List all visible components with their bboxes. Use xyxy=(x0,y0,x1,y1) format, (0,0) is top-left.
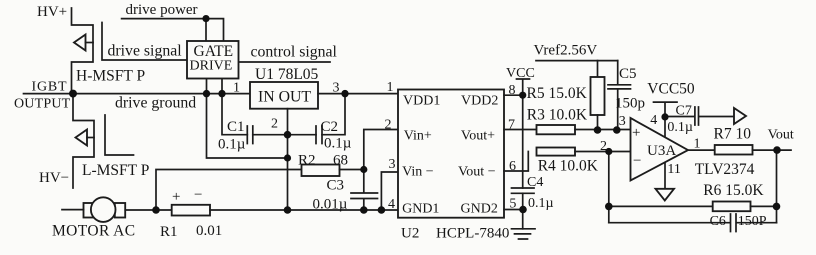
svg-text:68: 68 xyxy=(333,153,348,169)
svg-text:R7 10: R7 10 xyxy=(714,126,752,143)
svg-text:TLV2374: TLV2374 xyxy=(695,161,755,178)
svg-text:U2: U2 xyxy=(401,226,419,242)
svg-text:4: 4 xyxy=(388,197,395,212)
svg-text:C3: C3 xyxy=(327,178,345,194)
svg-text:R1: R1 xyxy=(160,224,178,240)
svg-text:R2: R2 xyxy=(298,153,316,169)
svg-text:Vref2.56V: Vref2.56V xyxy=(534,43,598,59)
svg-text:1: 1 xyxy=(233,81,240,96)
svg-text:0.1µ: 0.1µ xyxy=(324,136,352,152)
svg-text:GATE: GATE xyxy=(194,43,234,60)
svg-text:VCC50: VCC50 xyxy=(647,81,695,98)
svg-text:drive signal: drive signal xyxy=(108,43,183,60)
svg-text:VDD1: VDD1 xyxy=(403,94,440,109)
svg-text:drive ground: drive ground xyxy=(115,95,196,112)
svg-text:Vin −: Vin − xyxy=(402,165,434,180)
svg-text:C4: C4 xyxy=(527,175,543,190)
svg-text:HV−: HV− xyxy=(39,170,69,186)
svg-text:U3A: U3A xyxy=(647,143,676,159)
svg-text:2: 2 xyxy=(271,117,278,132)
svg-text:drive power: drive power xyxy=(126,2,198,18)
svg-text:0.1µ: 0.1µ xyxy=(667,120,693,135)
svg-text:3: 3 xyxy=(389,157,396,172)
svg-text:0.1µ: 0.1µ xyxy=(218,137,246,153)
svg-text:IGBT: IGBT xyxy=(32,80,68,95)
svg-text:MOTOR AC: MOTOR AC xyxy=(52,223,135,240)
svg-text:GND2: GND2 xyxy=(461,202,498,217)
svg-text:C1: C1 xyxy=(227,119,245,135)
svg-text:OUTPUT: OUTPUT xyxy=(14,97,71,112)
svg-text:Vout+: Vout+ xyxy=(461,129,495,144)
svg-text:R6 15.0K: R6 15.0K xyxy=(703,182,764,199)
svg-text:HV+: HV+ xyxy=(37,4,67,20)
svg-text:+: + xyxy=(632,125,640,141)
svg-text:0.01: 0.01 xyxy=(196,223,222,239)
svg-text:HCPL-7840: HCPL-7840 xyxy=(436,226,509,242)
svg-text:0.01µ: 0.01µ xyxy=(313,197,348,213)
svg-text:U1 78L05: U1 78L05 xyxy=(255,66,319,83)
svg-text:150P: 150P xyxy=(738,214,767,229)
svg-text:C7: C7 xyxy=(676,104,692,119)
svg-text:R3 10.0K: R3 10.0K xyxy=(527,107,588,124)
svg-text:R5 15.0K: R5 15.0K xyxy=(527,85,588,102)
svg-text:+: + xyxy=(172,189,180,205)
svg-text:R4 10.0K: R4 10.0K xyxy=(538,158,599,175)
svg-text:−: − xyxy=(194,187,202,203)
svg-text:H-MSFT P: H-MSFT P xyxy=(76,68,145,85)
svg-text:−: − xyxy=(633,153,641,169)
svg-text:Vout −: Vout − xyxy=(458,165,496,180)
svg-text:11: 11 xyxy=(667,162,680,177)
svg-text:GND1: GND1 xyxy=(402,202,439,217)
svg-text:C5: C5 xyxy=(619,66,637,82)
svg-text:4: 4 xyxy=(650,113,657,128)
svg-text:1: 1 xyxy=(387,80,394,95)
svg-text:DRIVE: DRIVE xyxy=(190,59,233,74)
svg-text:control signal: control signal xyxy=(251,44,338,61)
svg-text:L-MSFT P: L-MSFT P xyxy=(82,162,149,179)
svg-text:C6: C6 xyxy=(710,214,726,229)
svg-text:C2: C2 xyxy=(321,119,339,135)
svg-text:0.1µ: 0.1µ xyxy=(528,196,554,211)
svg-text:2: 2 xyxy=(385,118,392,133)
svg-text:Vout: Vout xyxy=(768,128,794,143)
svg-text:IN OUT: IN OUT xyxy=(258,89,311,106)
svg-text:150p: 150p xyxy=(615,96,645,112)
svg-text:VDD2: VDD2 xyxy=(461,94,498,109)
svg-text:Vin+: Vin+ xyxy=(404,129,432,144)
svg-text:3: 3 xyxy=(619,114,626,129)
